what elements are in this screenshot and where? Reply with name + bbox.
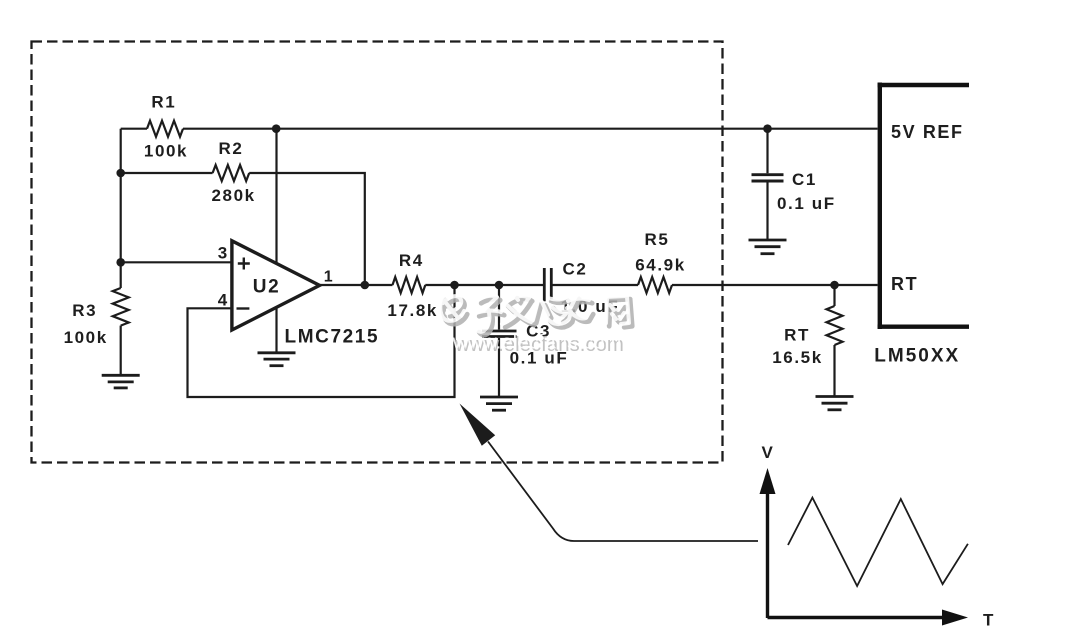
junction node: feedback tap on output row	[450, 281, 459, 290]
svg-text:100k: 100k	[64, 328, 108, 347]
svg-text:RT: RT	[891, 274, 918, 294]
svg-text:T: T	[983, 611, 995, 630]
svg-text:4: 4	[218, 291, 229, 310]
junction node: R2 drop on output row	[361, 281, 370, 290]
wire: supply line through op-amp to ground	[275, 129, 277, 353]
svg-text:3: 3	[218, 244, 229, 263]
svg-text:www.elecfans.com: www.elecfans.com	[452, 332, 622, 354]
ground below C3	[480, 397, 518, 410]
svg-text:LMC7215: LMC7215	[285, 327, 380, 348]
junction node: C3 tap on output row	[495, 281, 504, 290]
svg-text:R5: R5	[645, 230, 670, 249]
waveform V axis	[760, 443, 776, 618]
capacitor C2	[544, 268, 551, 301]
wire: non-inverting input (pin 3)	[121, 261, 232, 263]
wire: left vertical rail	[120, 129, 122, 288]
resistor R5	[638, 277, 672, 293]
svg-text:R4: R4	[399, 251, 424, 270]
svg-text:16.5k: 16.5k	[772, 348, 823, 367]
wire: C1 leads	[766, 129, 768, 240]
ground below op-amp	[258, 353, 296, 366]
wire: R3 lower lead to ground	[120, 326, 122, 375]
wire: feedback loop from pin 4	[188, 285, 455, 397]
resistor R3	[113, 288, 129, 326]
junction node: R2 tap on left rail	[116, 169, 125, 178]
svg-text:V: V	[762, 443, 775, 462]
dashed oscillator boundary box	[32, 42, 723, 463]
svg-text:C1: C1	[792, 170, 817, 189]
ground below RT	[816, 397, 854, 410]
svg-text:LM50XX: LM50XX	[874, 346, 960, 367]
svg-text:R1: R1	[151, 93, 176, 112]
svg-text:17.8k: 17.8k	[387, 301, 438, 320]
svg-text:RT: RT	[784, 326, 810, 345]
ground below R3	[102, 375, 140, 388]
capacitor C1	[752, 175, 784, 181]
svg-text:0.1 uF: 0.1 uF	[777, 194, 836, 213]
svg-text:64.9k: 64.9k	[635, 256, 686, 275]
junction node: pin3 tap on left rail	[116, 258, 125, 267]
wire: R2 row and right drop to output	[121, 173, 365, 285]
watermark: stylized Chinese characters (drawn cursive strokes, embossed)	[440, 295, 632, 335]
svg-text:1: 1	[324, 269, 335, 286]
resistor R1	[147, 121, 183, 137]
waveform T axis	[768, 610, 995, 630]
wire: C3 leads	[498, 285, 500, 397]
svg-text:C2: C2	[563, 260, 588, 279]
svg-text:R2: R2	[219, 139, 244, 158]
triangle waveform trace	[788, 498, 968, 586]
resistor RT 16.5k	[827, 306, 843, 345]
wire: top 5V REF rail	[121, 128, 878, 130]
op-amp U2	[232, 241, 320, 330]
svg-text:100k: 100k	[144, 142, 188, 161]
pointer arrow to feedback node	[460, 404, 759, 542]
resistor R4	[393, 277, 426, 293]
ground below C1	[749, 240, 787, 254]
junction node: RT tap on output row	[830, 281, 839, 290]
wire: RT resistor leads	[833, 285, 835, 396]
resistor R2	[213, 165, 250, 181]
svg-text:U2: U2	[253, 277, 281, 298]
svg-text:280k: 280k	[211, 186, 255, 205]
svg-text:R3: R3	[72, 301, 97, 320]
IC block LM50XX	[878, 83, 969, 330]
capacitor C3	[482, 331, 517, 337]
wire: output row through R4, C2, R5 to RT pin	[320, 284, 878, 286]
junction node: R1/supply tap on 5V rail	[272, 124, 281, 133]
junction node: C1 tap on 5V rail	[763, 124, 772, 133]
svg-text:5V REF: 5V REF	[891, 122, 964, 142]
